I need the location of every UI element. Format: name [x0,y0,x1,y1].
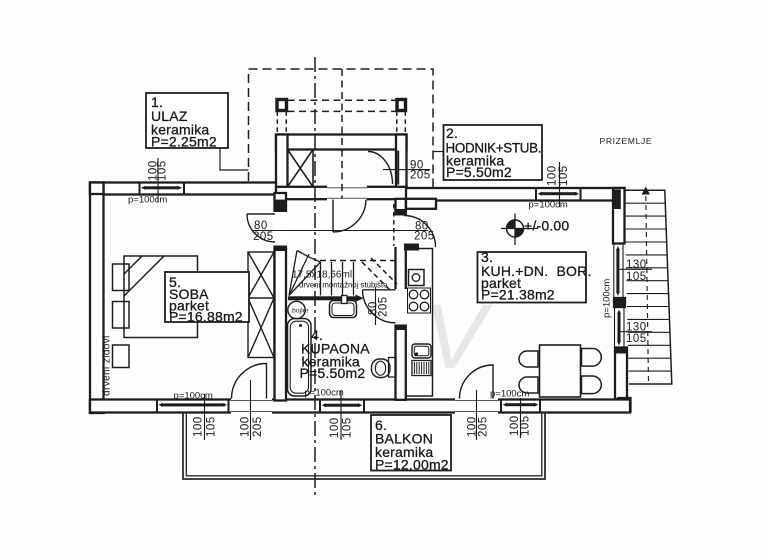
svg-text:p=100cm: p=100cm [490,389,529,400]
svg-text:100: 100 [329,417,341,438]
svg-text:P=5.50m2: P=5.50m2 [300,365,366,381]
svg-text:130: 130 [626,259,647,271]
svg-text:drveni montažnoj stubište: drveni montažnoj stubište [299,281,387,290]
svg-text:205: 205 [378,296,390,317]
svg-text:P=16.88m2: P=16.88m2 [169,309,243,325]
svg-text:205: 205 [478,416,490,437]
svg-text:bojler: bojler [292,308,309,315]
svg-text:205: 205 [414,231,435,243]
svg-text:205: 205 [253,231,274,243]
svg-text:105: 105 [342,417,354,438]
svg-text:p=100cm: p=100cm [529,200,568,211]
svg-text:105: 105 [626,333,647,345]
svg-text:+/-0.00: +/-0.00 [524,218,569,234]
svg-text:P=21.38m2: P=21.38m2 [481,287,555,303]
svg-text:2.: 2. [446,125,458,141]
svg-text:105: 105 [520,415,532,436]
svg-text:V: V [424,286,493,388]
svg-text:100: 100 [547,165,559,186]
svg-text:17,5x18,66ml: 17,5x18,66ml [292,270,352,281]
svg-text:105: 105 [157,160,169,181]
svg-text:p=100cm: p=100cm [305,388,344,399]
svg-text:205: 205 [410,170,431,182]
svg-text:PRIZEMLJE: PRIZEMLJE [600,136,653,146]
svg-text:P=12.00m2: P=12.00m2 [375,457,449,473]
svg-text:p=100cm: p=100cm [602,279,613,318]
svg-text:130: 130 [626,322,647,334]
svg-text:105: 105 [558,165,570,186]
svg-text:105: 105 [206,416,218,437]
svg-text:p=100cm: p=100cm [174,391,213,402]
svg-text:P=2.25m2: P=2.25m2 [151,134,217,150]
svg-text:100: 100 [193,416,205,437]
svg-text:205: 205 [252,416,264,437]
svg-text:P=5.50m2: P=5.50m2 [446,164,512,180]
svg-text:100: 100 [240,416,252,437]
svg-text:p=100cm: p=100cm [128,195,167,206]
svg-text:drveni zidovi: drveni zidovi [102,335,113,396]
svg-text:105: 105 [626,271,647,283]
